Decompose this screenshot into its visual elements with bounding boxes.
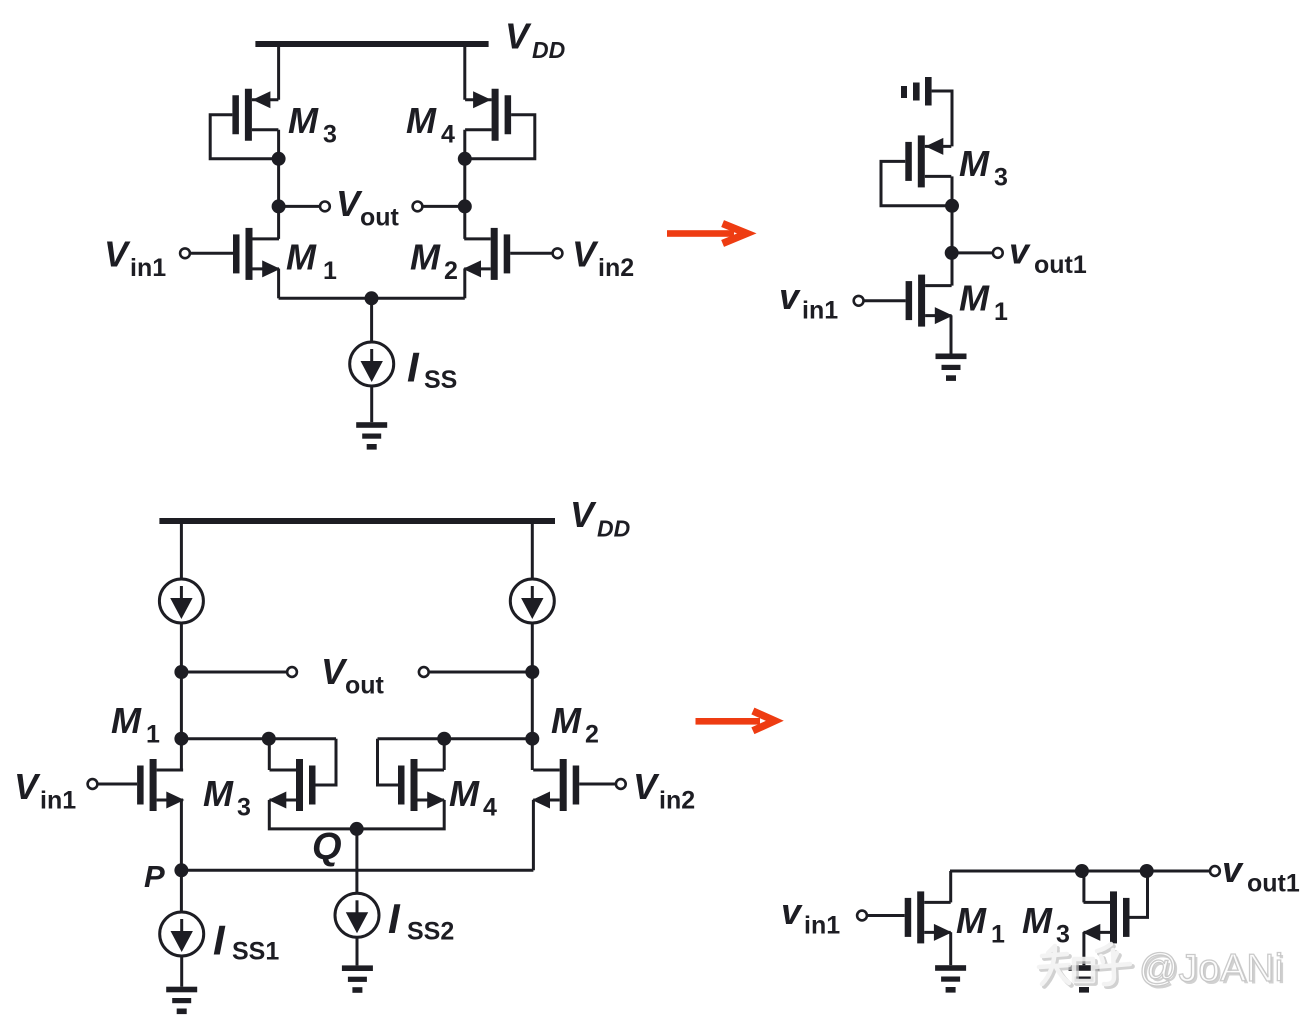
wire P horizontal (M1 source to M2 source) [181,869,533,872]
terminal vin1 (bottom-right) [857,911,867,921]
label Vin1 (top-left) [104,234,166,283]
svg-text:M: M [203,773,234,814]
current source ISS2 [335,893,379,937]
svg-text:V: V [572,234,599,275]
terminal Vout right (bottom-left) [419,667,429,677]
label M3 (top-left) [288,100,337,149]
wire tail node horizontal [279,297,465,300]
wire P down to ISS1 [180,870,183,912]
wire Vin1 to M1 gate [190,252,233,255]
svg-text:v: v [781,891,803,932]
wire M2 gate to Vin2 (bottom-left) [579,783,616,786]
transistor M3 (diode-connected NMOS, bottom-right) [1082,891,1129,943]
label Vin2 (top-left) [572,234,634,283]
VDD power rail (top-left circuit) [255,41,488,47]
transistor M2 (NMOS, top-left) [463,228,510,280]
wire vin1 to M1 gate (bottom-right) [867,914,905,917]
wire M3 source down to Q [269,800,356,829]
node M2 drain junction [525,732,539,746]
wire M1 drain up (bottom-right) [949,871,952,902]
svg-text:out: out [360,203,400,231]
svg-text:3: 3 [994,164,1008,192]
node M3 drain junction (bottom-left) [262,732,276,746]
wire right current source to Vout node [531,623,534,672]
ground (ISS2) [342,965,373,992]
wire vout1 tap (top-right) [952,251,993,254]
wire output rail (bottom-right) [950,870,1210,873]
svg-text:2: 2 [444,257,458,285]
red arrow (bottom) [696,711,775,731]
svg-text:V: V [104,234,131,275]
wire M1 drain node to M3 gate hook [181,737,336,740]
node vout1 junction (top-right) [945,246,959,260]
label Vin1 (bottom-left) [14,766,76,815]
svg-text:M: M [288,100,319,141]
transistor M3 (NMOS, bottom-left) [268,759,315,811]
svg-text:in1: in1 [804,912,840,940]
current source ISS1 [160,912,204,956]
svg-text:out1: out1 [1247,870,1300,898]
wire M3 source to ground (bottom-right) [1082,932,1085,965]
watermark 知乎 @JoANi [1039,944,1286,992]
svg-text:@JoANi: @JoANi [1139,947,1284,990]
label M3 (top-right) [959,143,1008,192]
svg-text:M: M [959,143,990,184]
red arrow (top) [667,224,747,244]
wire M3 drain up (bottom-right) [1082,871,1085,902]
svg-text:M: M [956,900,987,941]
terminal Vin1 (bottom-left) [88,779,98,789]
svg-text:3: 3 [237,794,251,822]
svg-text:V: V [570,494,597,535]
node M4 drain-gate junction [458,152,472,166]
ground (M1 bottom-right) [935,965,966,992]
wire M3 gate hook [316,739,337,785]
label node Q [312,826,342,868]
svg-text:DD: DD [532,37,565,63]
svg-text:in1: in1 [130,254,166,282]
transistor M3 (diode-connected PMOS, top-left) [232,89,278,141]
terminal Vout right [413,202,423,212]
terminal vin1 (top-right) [854,296,864,306]
transistor M1 (NMOS, bottom-left) [137,759,184,811]
svg-text:4: 4 [483,794,497,822]
transistor M1 (NMOS, bottom-right) [905,891,952,943]
transistor M2 (NMOS, bottom-left) [532,759,579,811]
svg-text:1: 1 [323,257,337,285]
wire ISS1 to ground [180,956,183,987]
terminal vout1 (top-right) [993,248,1003,258]
VDD supply stub (top-right) [901,77,932,106]
node Vout right junction [458,199,472,213]
node Vout left junction (bottom-left) [174,665,188,679]
svg-text:in2: in2 [659,787,695,815]
svg-text:out: out [345,672,385,700]
transistor M1 (NMOS, top-left) [233,228,280,280]
svg-text:3: 3 [1056,921,1070,949]
transistor M4 (NMOS, bottom-left) [398,759,445,811]
svg-text:M: M [286,237,317,278]
terminal vout1 (bottom-right) [1210,866,1220,876]
svg-text:M: M [406,100,437,141]
svg-text:M: M [1022,900,1053,941]
svg-text:I: I [407,344,420,391]
node P junction [174,863,188,877]
wire M4 gate hook [378,739,399,785]
svg-text:SS2: SS2 [407,918,454,946]
svg-text:V: V [321,651,348,692]
wire M3 gate hook (bottom-right) [1130,871,1148,917]
wire M3 gate diode loop (top-right) [881,161,952,205]
wire M4 drain down to M2 drain [463,130,466,239]
node M4 drain junction (bottom-left) [437,732,451,746]
current source ISS [350,342,394,386]
svg-text:1: 1 [991,921,1005,949]
svg-text:out1: out1 [1034,251,1087,279]
wire ISS2 to ground [356,937,359,965]
svg-text:I: I [388,895,401,942]
wire Vout right tap (bottom-left) [429,671,533,674]
label vout1 (top-right) [1009,231,1087,280]
wire Vin1 to M1 gate (bottom-left) [97,783,137,786]
wire VDD rail to M3 source [277,44,280,100]
label M1 (top-left) [286,237,337,286]
wire Q down to ISS2 (crosses P wire) [355,829,358,893]
label ISS1 [213,917,279,966]
ground (top-left tail) [356,422,387,449]
label vin1 (top-right) [779,276,838,325]
terminal Vout left [320,202,330,212]
wire M3 drain hook [268,739,271,770]
label ISS2 [388,895,454,946]
svg-text:in1: in1 [40,787,76,815]
node M3 drain-gate junction (top-right) [945,199,959,213]
svg-text:1: 1 [994,298,1008,326]
svg-text:M: M [959,278,990,319]
wire M3 drain down to M1 drain [277,130,280,239]
svg-text:2: 2 [585,721,599,749]
current source left (bottom-left) [159,579,203,623]
wire VDD to left current source [180,521,183,579]
wire M1 source to ground (bottom-right) [949,932,952,965]
svg-text:v: v [1222,849,1244,890]
label M1 (bottom-right) [956,900,1005,949]
svg-text:M: M [551,700,582,741]
node Q junction [350,822,364,836]
node M1 drain junction (bottom-right) [1075,864,1089,878]
wire M2 source down [463,269,466,298]
VDD power rail (bottom-left circuit) [159,518,555,524]
terminal Vin2 (top-left) [553,248,563,258]
svg-text:in1: in1 [802,297,838,325]
svg-text:1: 1 [146,721,160,749]
label vout1 (bottom-right) [1222,849,1300,898]
node Vout right junction (bottom-left) [525,665,539,679]
transistor M3 (diode-connected PMOS, top-right) [905,135,951,187]
svg-text:M: M [111,700,142,741]
wire M1 drain vertical [180,672,183,770]
svg-text:V: V [336,183,363,224]
label Vout (bottom-left) [321,651,385,700]
wire M4 gate diode loop [465,115,535,159]
label M4 (bottom-left) [449,773,497,822]
label Vin2 (bottom-left) [633,766,695,815]
node M3 drain-gate junction [272,152,286,166]
current source right (bottom-left) [510,579,554,623]
label M2 (bottom-left) [551,700,599,749]
wire M1 source down [277,269,280,298]
terminal Vin2 (bottom-left) [616,779,626,789]
label VDD (top-left) [505,16,565,64]
svg-text:V: V [633,766,660,807]
node M3 gate junction (bottom-right) [1140,864,1154,878]
label M4 (top-left) [406,100,455,149]
label M1 (bottom-left) [111,700,160,749]
wire M4 drain hook [443,739,446,770]
label M3 (bottom-right) [1022,900,1070,949]
svg-text:DD: DD [597,516,630,542]
wire M1 source down to P [180,800,183,870]
wire M1 source to ground (top-right) [950,316,953,354]
svg-text:v: v [1009,231,1031,272]
svg-text:M: M [410,237,441,278]
wire VDD rail to M4 source [463,44,466,100]
ground (ISS1) [166,987,197,1014]
terminal Vin1 (top-left) [180,248,190,258]
ground (M3 bottom-right) [1069,965,1100,992]
wire M4 source down to Q [357,800,445,829]
svg-text:SS1: SS1 [232,938,279,966]
label ISS [407,344,457,395]
svg-text:in2: in2 [598,254,634,282]
wire ISS to ground [370,386,373,422]
label node P [144,859,165,894]
wire M3 gate diode loop [210,115,278,159]
wire vin1 to M1 gate (top-right) [863,299,905,302]
wire M3 drain down to M1 drain (top-right) [951,176,954,285]
svg-text:V: V [505,16,532,57]
label M1 (top-right) [959,278,1008,327]
svg-text:SS: SS [424,366,457,394]
wire left current source to Vout node [180,623,183,672]
wire M2 drain node to M4 gate hook [378,737,533,740]
wire M2 gate to Vin2 [510,252,553,255]
node M1 drain junction [174,732,188,746]
svg-text:v: v [779,276,801,317]
wire Vout left tap [279,205,321,208]
terminal Vout left (bottom-left) [287,667,297,677]
label vin1 (bottom-right) [781,891,840,940]
svg-text:4: 4 [441,121,455,149]
svg-text:I: I [213,917,226,964]
node tail junction [365,291,379,305]
label M2 (top-left) [410,237,458,286]
svg-text:3: 3 [323,121,337,149]
node Vout left junction [272,199,286,213]
wire VDD stub to M3 source [932,91,952,146]
svg-text:Q: Q [312,826,342,868]
transistor M1 (NMOS, top-right) [906,275,953,327]
svg-text:V: V [14,766,41,807]
wire M2 drain vertical [531,672,534,770]
wire Vout right tap [422,205,465,208]
label Vout (top-left) [336,183,400,232]
label M3 (bottom-left) [203,773,251,822]
svg-text:M: M [449,773,480,814]
wire tail to ISS [370,298,373,342]
ground (top-right) [936,354,967,381]
svg-text:P: P [144,859,165,894]
wire M2 source down to P wire [532,800,535,870]
transistor M4 (diode-connected PMOS, top-left) [465,89,511,141]
wire Vout left tap (bottom-left) [181,671,287,674]
label VDD (bottom-left) [570,494,630,542]
wire VDD to right current source [531,521,534,579]
